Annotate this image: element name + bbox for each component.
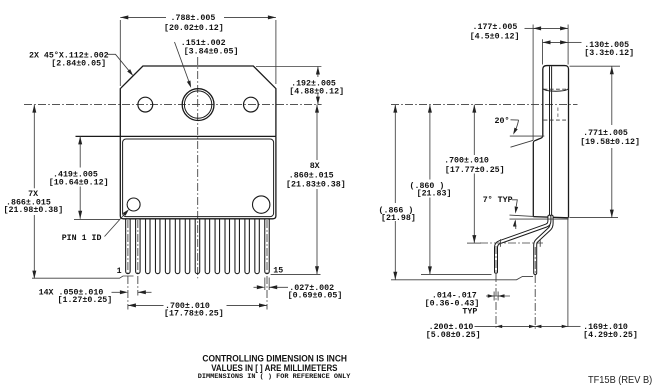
svg-text:[17.77±0.25]: [17.77±0.25]	[445, 165, 505, 175]
svg-text:20°: 20°	[495, 117, 510, 126]
svg-text:[21.83]: [21.83]	[417, 189, 452, 199]
svg-text:[3.84±0.05]: [3.84±0.05]	[184, 46, 239, 56]
svg-text:[4.5±0.12]: [4.5±0.12]	[470, 31, 520, 41]
svg-text:VALUES IN [ ] ARE MILLIMETERS: VALUES IN [ ] ARE MILLIMETERS	[211, 363, 337, 373]
svg-text:8X: 8X	[310, 162, 320, 171]
svg-text:1: 1	[117, 267, 122, 276]
svg-text:.788±.005: .788±.005	[171, 14, 216, 23]
svg-text:[0.69±0.05]: [0.69±0.05]	[288, 291, 343, 301]
svg-text:.771±.005: .771±.005	[583, 129, 628, 138]
svg-text:[21.83±0.38]: [21.83±0.38]	[286, 179, 346, 189]
svg-text:[21.98]: [21.98]	[381, 213, 416, 223]
svg-text:[4.88±0.12]: [4.88±0.12]	[289, 87, 344, 97]
svg-text:[21.98±0.38]: [21.98±0.38]	[4, 205, 64, 215]
svg-text:[1.27±0.25]: [1.27±0.25]	[58, 295, 113, 305]
svg-text:[2.84±0.05]: [2.84±0.05]	[51, 59, 106, 69]
svg-text:[5.08±0.25]: [5.08±0.25]	[426, 330, 481, 340]
svg-text:[20.02±0.12]: [20.02±0.12]	[164, 23, 224, 33]
svg-text:PIN 1 ID: PIN 1 ID	[62, 234, 102, 243]
svg-text:[3.3±0.12]: [3.3±0.12]	[584, 48, 634, 58]
svg-text:DIMMENSIONS IN ( ) FOR REFERE: DIMMENSIONS IN ( ) FOR REFERENCE ONLY	[198, 373, 352, 381]
svg-text:TF15B (REV B): TF15B (REV B)	[588, 375, 652, 386]
svg-text:[19.58±0.12]: [19.58±0.12]	[580, 137, 640, 147]
svg-text:TYP: TYP	[462, 308, 477, 317]
svg-text:.700±.010: .700±.010	[444, 157, 489, 166]
svg-text:[4.29±0.25]: [4.29±0.25]	[583, 330, 638, 340]
svg-text:[17.78±0.25]: [17.78±0.25]	[164, 309, 224, 319]
svg-text:.177±.005: .177±.005	[473, 23, 518, 32]
svg-text:7° TYP: 7° TYP	[483, 196, 513, 205]
svg-text:7X: 7X	[28, 190, 38, 199]
svg-text:[10.64±0.12]: [10.64±0.12]	[49, 178, 109, 188]
